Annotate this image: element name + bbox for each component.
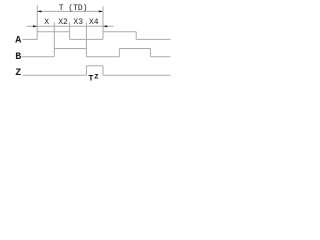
svg-text:B: B — [15, 52, 21, 63]
arrowhead X row left (outside, points right) — [33, 25, 37, 27]
dimension line X row — [27, 25, 114, 27]
background — [0, 0, 175, 92]
svg-text:Z: Z — [15, 68, 21, 79]
svg-text:T (TD): T (TD) — [59, 4, 88, 13]
arrowhead T right — [99, 10, 103, 12]
tick X/X2 boundary (extends down to signal B rising edge) — [53, 22, 55, 57]
svg-text:z: z — [94, 73, 99, 82]
wire signal A trace — [23, 32, 171, 40]
tick X3/X4 boundary (also signal B falling edge) — [85, 22, 87, 56]
dimension line T(TD) — [37, 10, 103, 12]
svg-text:T: T — [88, 73, 93, 83]
arrowhead X row right (outside, points left) — [103, 25, 107, 27]
svg-text:X3: X3 — [73, 18, 83, 27]
wire signal B trace — [22, 49, 171, 57]
wire signal Z trace with pulse — [23, 66, 171, 75]
extension line right x=103 (also signal A second rising edge) — [102, 6, 104, 39]
extension line left x=37.2 (also signal A first rising edge) — [36, 5, 38, 39]
svg-text:X2: X2 — [58, 18, 68, 27]
svg-text:X4: X4 — [89, 18, 99, 27]
tick X2/X3 boundary (also signal A falling edge) — [69, 22, 71, 39]
svg-text:X: X — [44, 18, 49, 27]
arrowhead T left — [37, 10, 41, 12]
svg-text:A: A — [15, 35, 21, 46]
